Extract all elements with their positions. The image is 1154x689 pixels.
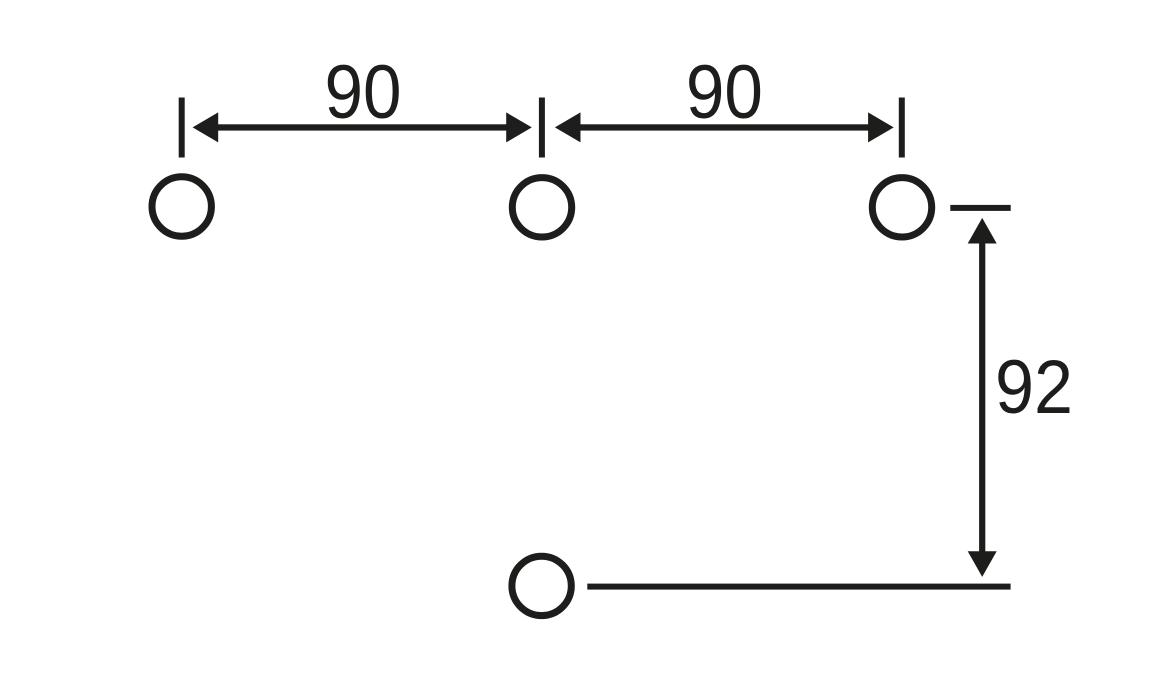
tick 1 (extension mark above hole 1)	[179, 98, 185, 158]
hole circle 2	[512, 178, 571, 237]
vertical dimension line 92	[968, 218, 997, 577]
dimension line 90 (left span)	[193, 112, 532, 142]
tick 3 (extension mark above hole 3)	[899, 98, 905, 158]
svg-text:90: 90	[325, 50, 402, 135]
bottom reference line	[587, 584, 1010, 590]
svg-text:92: 92	[995, 345, 1073, 430]
top reference bar (next to hole 3)	[950, 205, 1010, 211]
hole circle 1	[152, 177, 211, 236]
tick 2 (extension mark above hole 2)	[539, 98, 545, 158]
dimension line 90 (right span)	[555, 112, 894, 142]
svg-text:90: 90	[686, 50, 763, 135]
hole circle 4 (bottom)	[512, 556, 571, 615]
hole circle 3	[872, 178, 931, 237]
